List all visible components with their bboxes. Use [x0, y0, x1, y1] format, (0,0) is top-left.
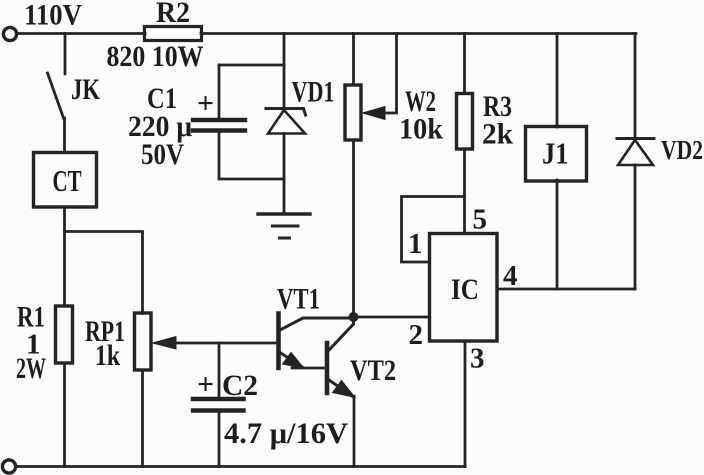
svg-text:5: 5 [473, 204, 488, 236]
svg-text:VT2: VT2 [350, 354, 396, 387]
wire bottom rail [16, 465, 465, 468]
wire W2 wiper from top rail [384, 34, 397, 114]
svg-text:4: 4 [503, 260, 518, 292]
relay J1 [556, 34, 559, 128]
svg-text:2: 2 [409, 319, 424, 351]
terminal input top-left [3, 27, 16, 40]
wire R3 to IC pin 5 [463, 149, 466, 233]
svg-text:4.7 μ/16V: 4.7 μ/16V [224, 417, 348, 450]
svg-text:R2: R2 [156, 0, 190, 29]
wire branch node to RP1 [65, 232, 143, 314]
svg-text:VD2: VD2 [661, 135, 703, 165]
potentiometer RP1 [135, 313, 152, 370]
resistor R2 [145, 27, 202, 41]
svg-text:J1: J1 [542, 136, 569, 171]
wire top rail [17, 32, 636, 35]
wire RP1 wiper [174, 342, 219, 345]
zener diode VD1 [283, 34, 286, 110]
svg-text:50V: 50V [141, 138, 184, 171]
switch JK [48, 34, 66, 153]
wire C1 bottom return [219, 132, 284, 179]
terminal bottom-left [2, 460, 15, 473]
wire R1 to bottom rail [63, 363, 66, 467]
svg-text:VD1: VD1 [292, 76, 335, 109]
svg-text:JK: JK [71, 73, 100, 106]
capacitor C2 [218, 343, 221, 398]
transistor VT2 [325, 343, 330, 393]
wire wiper to VT1 base [219, 342, 277, 345]
wire down to R1 [63, 232, 66, 307]
wire pin 2 [354, 316, 430, 319]
RP1 wiper arrowhead [153, 337, 177, 350]
svg-text:CT: CT [53, 163, 82, 198]
svg-text:2k: 2k [482, 118, 513, 151]
ground [258, 212, 310, 215]
svg-text:C2: C2 [222, 369, 258, 402]
wire pin 1 loop [402, 197, 465, 263]
junction node collectors / pin 2 [349, 312, 359, 322]
transistor VT1 [276, 314, 281, 369]
potentiometer W2 [352, 34, 355, 86]
svg-text:1k: 1k [95, 339, 120, 372]
svg-text:820 10W: 820 10W [107, 40, 204, 73]
svg-text:2W: 2W [16, 352, 46, 385]
svg-text:1: 1 [408, 228, 423, 260]
wire CT bottom [63, 207, 66, 232]
resistor R1 [56, 306, 73, 363]
wire VT2 emitter to bottom rail [353, 396, 356, 467]
transformer box CT [34, 153, 97, 208]
diode VD2 [634, 34, 637, 140]
svg-text:+: + [197, 87, 214, 120]
wire J1 bottom [556, 180, 559, 289]
wire W2 bottom to junction [352, 140, 355, 317]
W2 wiper arrowhead [363, 107, 386, 120]
svg-text:VT1: VT1 [277, 283, 320, 316]
svg-text:110V: 110V [24, 0, 82, 32]
wire RP1 to bottom rail [141, 370, 144, 467]
wire pin 4 [497, 288, 635, 291]
wire C2 to bottom rail [218, 412, 221, 467]
IC U1 box [430, 234, 498, 342]
wire C1 top branch [219, 64, 284, 67]
svg-text:3: 3 [470, 343, 485, 375]
svg-text:IC: IC [451, 273, 479, 306]
svg-text:+: + [197, 368, 214, 401]
resistor R3 [463, 34, 466, 94]
wire pin 3 [464, 341, 467, 467]
capacitor C1 [218, 65, 221, 118]
svg-text:10k: 10k [399, 113, 443, 146]
